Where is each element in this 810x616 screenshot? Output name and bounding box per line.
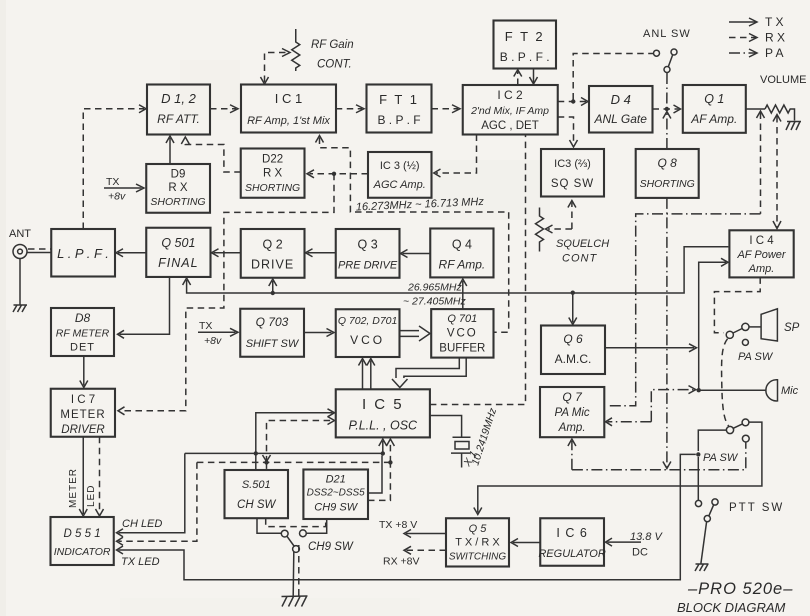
svg-text:T X / R X: T X / R X — [455, 537, 500, 549]
wire RX: IC7 down to D551 LED — [96, 437, 104, 516]
wire PA: Q1 output branch down — [757, 111, 765, 214]
diode D4 ANL Gate — [589, 86, 653, 133]
label TX LED — [121, 556, 160, 568]
transistor Q2 DRIVE — [241, 229, 305, 278]
transistor Q8 SHORTING — [636, 149, 699, 198]
svg-text:+8v: +8v — [108, 191, 126, 203]
wire: Q4 to Q3 — [401, 250, 431, 258]
svg-text:+8v: +8v — [204, 335, 222, 347]
wire: PA SW middle contact to junction — [698, 430, 726, 451]
pll IC5 PLL OSC — [336, 389, 430, 437]
ground at PTT — [695, 564, 709, 571]
filter FT2 BPF — [494, 21, 557, 69]
wire: CH9 lever to ground — [293, 545, 299, 596]
svg-text:TX +8 V: TX +8 V — [379, 519, 417, 531]
wire: CH LED line to D551 — [117, 453, 185, 536]
svg-text:Q 2: Q 2 — [263, 238, 283, 252]
svg-text:I C 5: I C 5 — [362, 396, 404, 413]
ground at ANT — [13, 305, 27, 312]
svg-text:Q 4: Q 4 — [452, 238, 472, 252]
svg-text:INDICATOR: INDICATOR — [54, 546, 111, 558]
wire: Q703 to VCO — [304, 329, 334, 337]
wire RX: IC1 to FT1 — [336, 105, 364, 113]
wire RX: Q8 bottom down to PA line — [663, 198, 671, 469]
wire RX: dashed into S501 top — [266, 462, 268, 470]
wire PA: mic node to Q7 input — [606, 386, 696, 426]
svg-text:TX: TX — [106, 176, 119, 188]
indicator D551 INDICATOR — [51, 517, 114, 565]
transistor Q6 AMC — [541, 326, 605, 375]
label 13.8V DC into IC6 — [606, 531, 664, 559]
svg-text:13.8 V: 13.8 V — [630, 531, 663, 543]
diode D9 RX SHORTING — [146, 164, 210, 213]
svg-text:Q 703: Q 703 — [256, 315, 289, 329]
wire RX: IC2 bottom to IC3half — [434, 135, 477, 178]
svg-text:ANL Gate: ANL Gate — [593, 112, 647, 126]
transistor Q703 SHIFT SW — [240, 309, 304, 357]
svg-text:SQUELCH: SQUELCH — [556, 238, 609, 250]
wire PA: PA line into Q7 bottom — [568, 439, 746, 470]
svg-text:Q 6: Q 6 — [563, 332, 583, 346]
svg-text:RF ATT.: RF ATT. — [157, 112, 200, 126]
wire PA: Q8 top up to junction — [663, 112, 671, 150]
svg-text:SHORTING: SHORTING — [150, 196, 205, 208]
wire: Q501 to LPF — [116, 249, 146, 257]
title PRO 520e — [687, 580, 793, 598]
wire: rail down into S501 top — [255, 453, 257, 470]
switch PA SW upper — [726, 323, 774, 363]
wire RX: D1,2 to IC1 — [210, 105, 238, 113]
mixer IC2 2nd Mix IF Amp AGC DET — [463, 85, 558, 135]
svg-text:VCO: VCO — [350, 333, 385, 347]
svg-text:R X: R X — [263, 168, 283, 180]
transistor Q501 FINAL — [146, 228, 210, 277]
wire: junction down to PTT SW — [697, 457, 699, 500]
wire: PTT to ground — [701, 522, 707, 564]
label CH9 SW — [308, 541, 354, 553]
svg-text:S.501: S.501 — [242, 479, 271, 491]
wire: Q2 to Q501 — [212, 249, 241, 257]
wire: rail branch up into IC5 left — [256, 409, 335, 454]
oscillator Q702,D701 VCO — [336, 309, 400, 357]
svg-text:SHIFT SW: SHIFT SW — [246, 338, 300, 350]
svg-text:SQ SW: SQ SW — [551, 178, 594, 190]
wire RX: ANL SW feed — [573, 54, 653, 100]
diode D8 RF METER DET — [51, 308, 114, 356]
svg-text:DC: DC — [632, 547, 648, 559]
svg-text:~ 27.405MHz: ~ 27.405MHz — [403, 296, 466, 308]
svg-text:RX +8V: RX +8V — [383, 556, 419, 568]
svg-text:D 4: D 4 — [611, 92, 631, 107]
wire: FT2 down to IC2 — [530, 69, 538, 84]
wire RX: D22 to D1,2 — [181, 137, 240, 172]
wire RX: FT1 to IC2 — [432, 105, 461, 113]
wire RX: Q5 RX +8V out — [383, 546, 446, 567]
wire RX: D4 to Q1 with junction — [653, 105, 681, 113]
ground at CH9 — [282, 596, 308, 607]
svg-text:IC 3 (½): IC 3 (½) — [380, 160, 420, 172]
wire RX: dashed branch into IC5 left — [263, 417, 335, 463]
svg-text:LED: LED — [86, 485, 97, 507]
wire RX: IC2 to FT2 up — [514, 70, 522, 85]
svg-text:DSS2~DSS5: DSS2~DSS5 — [307, 488, 366, 499]
svg-text:T X: T X — [765, 15, 783, 29]
svg-text:I C 6: I C 6 — [556, 526, 587, 540]
wire: IC7 down to D551 METER — [79, 437, 87, 516]
legend TX arrow — [729, 15, 783, 29]
svg-text:I C 2: I C 2 — [497, 88, 523, 102]
svg-text:Amp.: Amp. — [558, 422, 586, 434]
svg-text:REGULATOR: REGULATOR — [538, 548, 605, 560]
wire RX: IC3half to D22 with junction — [307, 170, 368, 178]
wire: D21 right to IC5 solid — [368, 456, 382, 494]
svg-text:Mic: Mic — [781, 385, 799, 397]
buffer Q701 VCO BUFFER — [431, 309, 493, 358]
wire RX: CH9 dashed loop under S501 D21 — [266, 518, 326, 526]
wire: Q6 output to node — [605, 344, 697, 352]
wire: rail up to Q2 — [269, 279, 277, 293]
wire: TX +8V rail — [183, 247, 729, 295]
svg-text:RF Gain: RF Gain — [311, 39, 354, 51]
wire: ANT to LPF — [27, 249, 51, 253]
wire: buffer bottom loop to IC5 double line — [392, 358, 466, 388]
svg-text:B . P . F: B . P . F — [377, 113, 420, 127]
wire: D9 up to D1,2 — [166, 136, 174, 164]
op-amp IC7 METER DRIVER — [51, 389, 115, 437]
svg-text:TX: TX — [199, 320, 212, 332]
svg-text:L . P . F .: L . P . F . — [57, 246, 109, 261]
svg-text:PA SW: PA SW — [738, 351, 774, 363]
svg-text:Q 7: Q 7 — [562, 390, 583, 404]
wire: Q5 TX +8V out — [379, 519, 446, 538]
volume potentiometer — [746, 74, 807, 121]
svg-text:VCO: VCO — [447, 328, 478, 340]
svg-text:D22: D22 — [262, 154, 283, 166]
crystal X1 — [430, 416, 471, 468]
filter LPF — [51, 229, 115, 277]
potentiometer SQUELCH CONT — [536, 208, 610, 265]
switch block S501 CH SW — [225, 470, 289, 518]
svg-text:FINAL: FINAL — [158, 256, 198, 270]
svg-text:BLOCK DIAGRAM: BLOCK DIAGRAM — [677, 600, 786, 615]
svg-text:D21: D21 — [326, 474, 346, 486]
svg-text:AF Amp.: AF Amp. — [690, 112, 737, 126]
wire: buffer top to Q4 26MHz — [459, 279, 467, 309]
svg-text:PRE DRIVE: PRE DRIVE — [338, 260, 398, 272]
microphone Mic — [699, 380, 799, 401]
svg-text:R X: R X — [168, 182, 188, 194]
svg-text:METER: METER — [60, 409, 105, 421]
wire RX: IC5 right to IC2 bottom 2nd LO — [430, 136, 526, 405]
wire RX: volume wiper down to IC4 — [773, 115, 781, 229]
wire: node vertical into IC4 — [697, 258, 729, 392]
op-amp IC1 RF Amp 1st Mix — [241, 85, 336, 133]
wire RX: IC2 right to SQ SW top — [558, 117, 578, 147]
wire: Q501 bottom to D8 — [118, 277, 170, 338]
label TX +8v into Q703 — [198, 320, 238, 347]
svg-text:R X: R X — [765, 31, 785, 45]
transistor Q3 PRE DRIVE — [336, 229, 400, 278]
wire RX: local osc line from buffer to IC1 — [316, 136, 509, 333]
label METER vertical — [68, 468, 79, 508]
wire RX: squelch wiper to SQ SW bottom — [546, 201, 576, 234]
svg-text:IC3 (⅔): IC3 (⅔) — [554, 158, 591, 170]
label TX +8v into D9 — [104, 176, 144, 203]
svg-text:RF METER: RF METER — [56, 328, 110, 340]
svg-text:I C 1: I C 1 — [275, 91, 302, 106]
svg-text:Q 701: Q 701 — [447, 313, 477, 325]
svg-text:D9: D9 — [171, 169, 186, 181]
svg-text:DRIVE: DRIVE — [251, 258, 294, 272]
svg-text:A.M.C.: A.M.C. — [555, 352, 592, 366]
speaker SP — [761, 309, 800, 341]
svg-text:CH9 SW: CH9 SW — [314, 502, 358, 514]
svg-text:CONT: CONT — [562, 253, 597, 265]
wire: PA SW top contact loop to Q5 top — [474, 422, 762, 514]
wire: Q3 to Q2 — [306, 249, 336, 257]
svg-text:DET: DET — [70, 342, 95, 354]
wire: rail branch up into IC5 bottom — [379, 439, 387, 453]
svg-text:SHORTING: SHORTING — [245, 182, 300, 194]
svg-text:F T 2: F T 2 — [505, 29, 545, 44]
svg-text:AGC , DET: AGC , DET — [481, 120, 539, 132]
svg-text:SHORTING: SHORTING — [640, 178, 695, 190]
wire RX: dashed rail under IC5 — [197, 460, 393, 464]
wire RX: dashed branch into IC5 bottom — [386, 439, 394, 462]
wire: TX LED line long run — [117, 452, 701, 580]
wire: ANT down to ground — [19, 259, 21, 305]
svg-text:CONT.: CONT. — [317, 59, 352, 71]
legend PA arrow — [729, 46, 783, 60]
ground at volume — [786, 122, 801, 131]
title BLOCK DIAGRAM — [677, 600, 786, 615]
wire: IC6 to Q5 — [511, 539, 540, 547]
wire PA: ANL SW lever down to junction — [666, 73, 668, 107]
transistor Q5 TX/RX SWITCHING — [446, 518, 509, 566]
svg-text:CH LED: CH LED — [122, 518, 162, 530]
svg-text:RF Amp.: RF Amp. — [439, 258, 486, 272]
svg-text:Q 3: Q 3 — [358, 238, 378, 252]
svg-text:I C 7: I C 7 — [71, 394, 95, 406]
svg-text:P.L.L. , OSC: P.L.L. , OSC — [349, 419, 419, 433]
svg-text:PA SW: PA SW — [703, 452, 739, 464]
svg-text:Q 8: Q 8 — [658, 156, 678, 170]
label X1 — [461, 449, 480, 470]
svg-text:Q 702, D701: Q 702, D701 — [338, 315, 398, 327]
label LED vertical — [86, 485, 97, 507]
wire: solid rail into IC5 left — [185, 451, 385, 455]
svg-text:BUFFER: BUFFER — [439, 343, 485, 355]
svg-text:ANL SW: ANL SW — [643, 28, 691, 40]
wire: rail down to Q6 — [569, 293, 577, 325]
svg-text:TX LED: TX LED — [121, 556, 160, 568]
svg-text:Q 501: Q 501 — [161, 236, 195, 250]
label 27.405MHz — [403, 296, 466, 308]
svg-text:P A: P A — [765, 46, 783, 60]
svg-text:Amp.: Amp. — [748, 263, 775, 275]
wire RX: D21 right to IC5 dashed — [368, 464, 390, 501]
potentiometer RF Gain — [292, 29, 354, 71]
wire RX: IC4 bottom to PA SW upper — [714, 277, 760, 332]
svg-text:AGC Amp.: AGC Amp. — [373, 179, 426, 191]
wire RX: dashed CH LED line to D551 — [117, 462, 197, 545]
switch PTT SW — [695, 499, 784, 522]
wire: VCO to buffer double line with open arrow — [400, 326, 431, 341]
transistor Q7 PA Mic Amp — [540, 387, 604, 437]
svg-text:SWITCHING: SWITCHING — [449, 552, 506, 563]
label 26.965MHz — [407, 282, 462, 294]
svg-text:CH SW: CH SW — [237, 499, 276, 511]
transistor Q1 AF Amp — [683, 85, 746, 133]
svg-text:2'nd Mix, IF Amp: 2'nd Mix, IF Amp — [470, 105, 549, 117]
connector ANT — [9, 228, 31, 259]
svg-text:D 1, 2: D 1, 2 — [161, 91, 196, 106]
transistor Q4 RF Amp — [430, 229, 493, 278]
svg-text:AF Power: AF Power — [736, 249, 786, 261]
svg-text:D8: D8 — [75, 311, 91, 325]
filter FT1 BPF — [367, 85, 432, 133]
svg-text:ANT: ANT — [9, 228, 31, 240]
label 16.273MHz ~ 16.713MHz — [356, 196, 485, 214]
wire RX: PA SW upper to lower curve — [722, 339, 729, 426]
switch ANL SW — [643, 28, 691, 73]
wire RX: AGC line down to IC7 meter driver — [118, 174, 334, 415]
svg-text:Q 5: Q 5 — [469, 523, 488, 535]
wire: IC5 up to VCO two lines — [359, 359, 375, 390]
svg-text:–PRO 520e–: –PRO 520e– — [687, 580, 793, 598]
legend RX arrow — [729, 31, 785, 45]
op-amp IC4 AF Power Amp — [729, 230, 793, 277]
op-amp IC3 (2/3) SQ SW — [541, 149, 604, 197]
diode D22 RX SHORTING — [241, 149, 305, 198]
switch block D21 DSS2~DSS5 CH9 SW — [303, 470, 368, 520]
switch CH9 SW — [257, 518, 327, 552]
svg-text:VOLUME: VOLUME — [760, 74, 806, 86]
wire PA: volume to Q7 horizontal and down — [607, 214, 761, 406]
wire RX: IC1 top to RF Gain pot — [261, 49, 291, 85]
svg-text:METER: METER — [68, 468, 79, 508]
svg-text:CH9 SW: CH9 SW — [308, 541, 354, 553]
svg-text:DRIVER: DRIVER — [61, 424, 104, 436]
svg-text:RF Amp, 1'st Mix: RF Amp, 1'st Mix — [247, 115, 330, 127]
wire RX: IC2 to D4 with ANL junction — [558, 98, 588, 106]
wire: D8 down to IC7 — [80, 356, 88, 388]
switch PA SW lower — [703, 419, 749, 464]
svg-text:I C 4: I C 4 — [749, 235, 774, 247]
svg-text:PA Mic: PA Mic — [555, 407, 590, 419]
label CH LED — [122, 518, 162, 530]
svg-text:B . P . F .: B . P . F . — [500, 50, 550, 64]
svg-text:PTT SW: PTT SW — [729, 502, 784, 514]
svg-text:F T 1: F T 1 — [379, 92, 419, 107]
regulator IC6 REGULATOR — [538, 518, 605, 566]
svg-text:SP: SP — [784, 322, 800, 334]
op-amp IC3 (1/2) AGC Amp — [368, 152, 432, 198]
svg-text:Q 1: Q 1 — [704, 92, 724, 106]
wire RX: LPF top up to D1,2 — [83, 105, 146, 229]
attenuator D1,2 RF ATT — [147, 85, 210, 135]
label 10.2419MHz rotated — [469, 406, 499, 467]
svg-text:D 5 5 1: D 5 5 1 — [64, 528, 101, 540]
svg-text:26.965MHz: 26.965MHz — [407, 282, 462, 294]
